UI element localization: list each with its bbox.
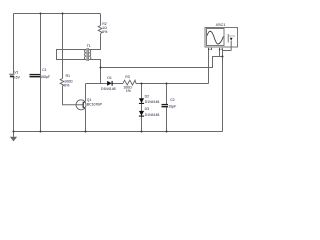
svg-text:T1: T1 — [87, 44, 91, 48]
svg-text:XSC1: XSC1 — [216, 23, 226, 27]
svg-text:3.6V: 3.6V — [13, 75, 21, 79]
svg-text:BC107BP: BC107BP — [87, 103, 103, 107]
svg-text:5%: 5% — [64, 83, 69, 87]
svg-text:D1N4148: D1N4148 — [101, 87, 116, 91]
svg-text:V1: V1 — [14, 70, 18, 74]
svg-text:Q1: Q1 — [87, 98, 92, 102]
svg-text:C1: C1 — [42, 68, 46, 72]
svg-text:5%: 5% — [102, 30, 107, 34]
svg-text:R1: R1 — [66, 74, 70, 78]
svg-text:R3: R3 — [125, 75, 129, 79]
svg-text:D1N4148: D1N4148 — [145, 113, 160, 117]
svg-text:D2: D2 — [145, 94, 149, 98]
svg-text:150µF: 150µF — [40, 75, 50, 79]
svg-text:10µF: 10µF — [168, 104, 176, 108]
svg-text:1%: 1% — [126, 89, 131, 93]
svg-text:D1N4148: D1N4148 — [145, 100, 160, 104]
svg-text:D3: D3 — [145, 107, 149, 111]
svg-text:D1: D1 — [107, 76, 111, 80]
svg-text:ext trg: ext trg — [229, 34, 236, 37]
svg-text:C2: C2 — [170, 98, 174, 102]
